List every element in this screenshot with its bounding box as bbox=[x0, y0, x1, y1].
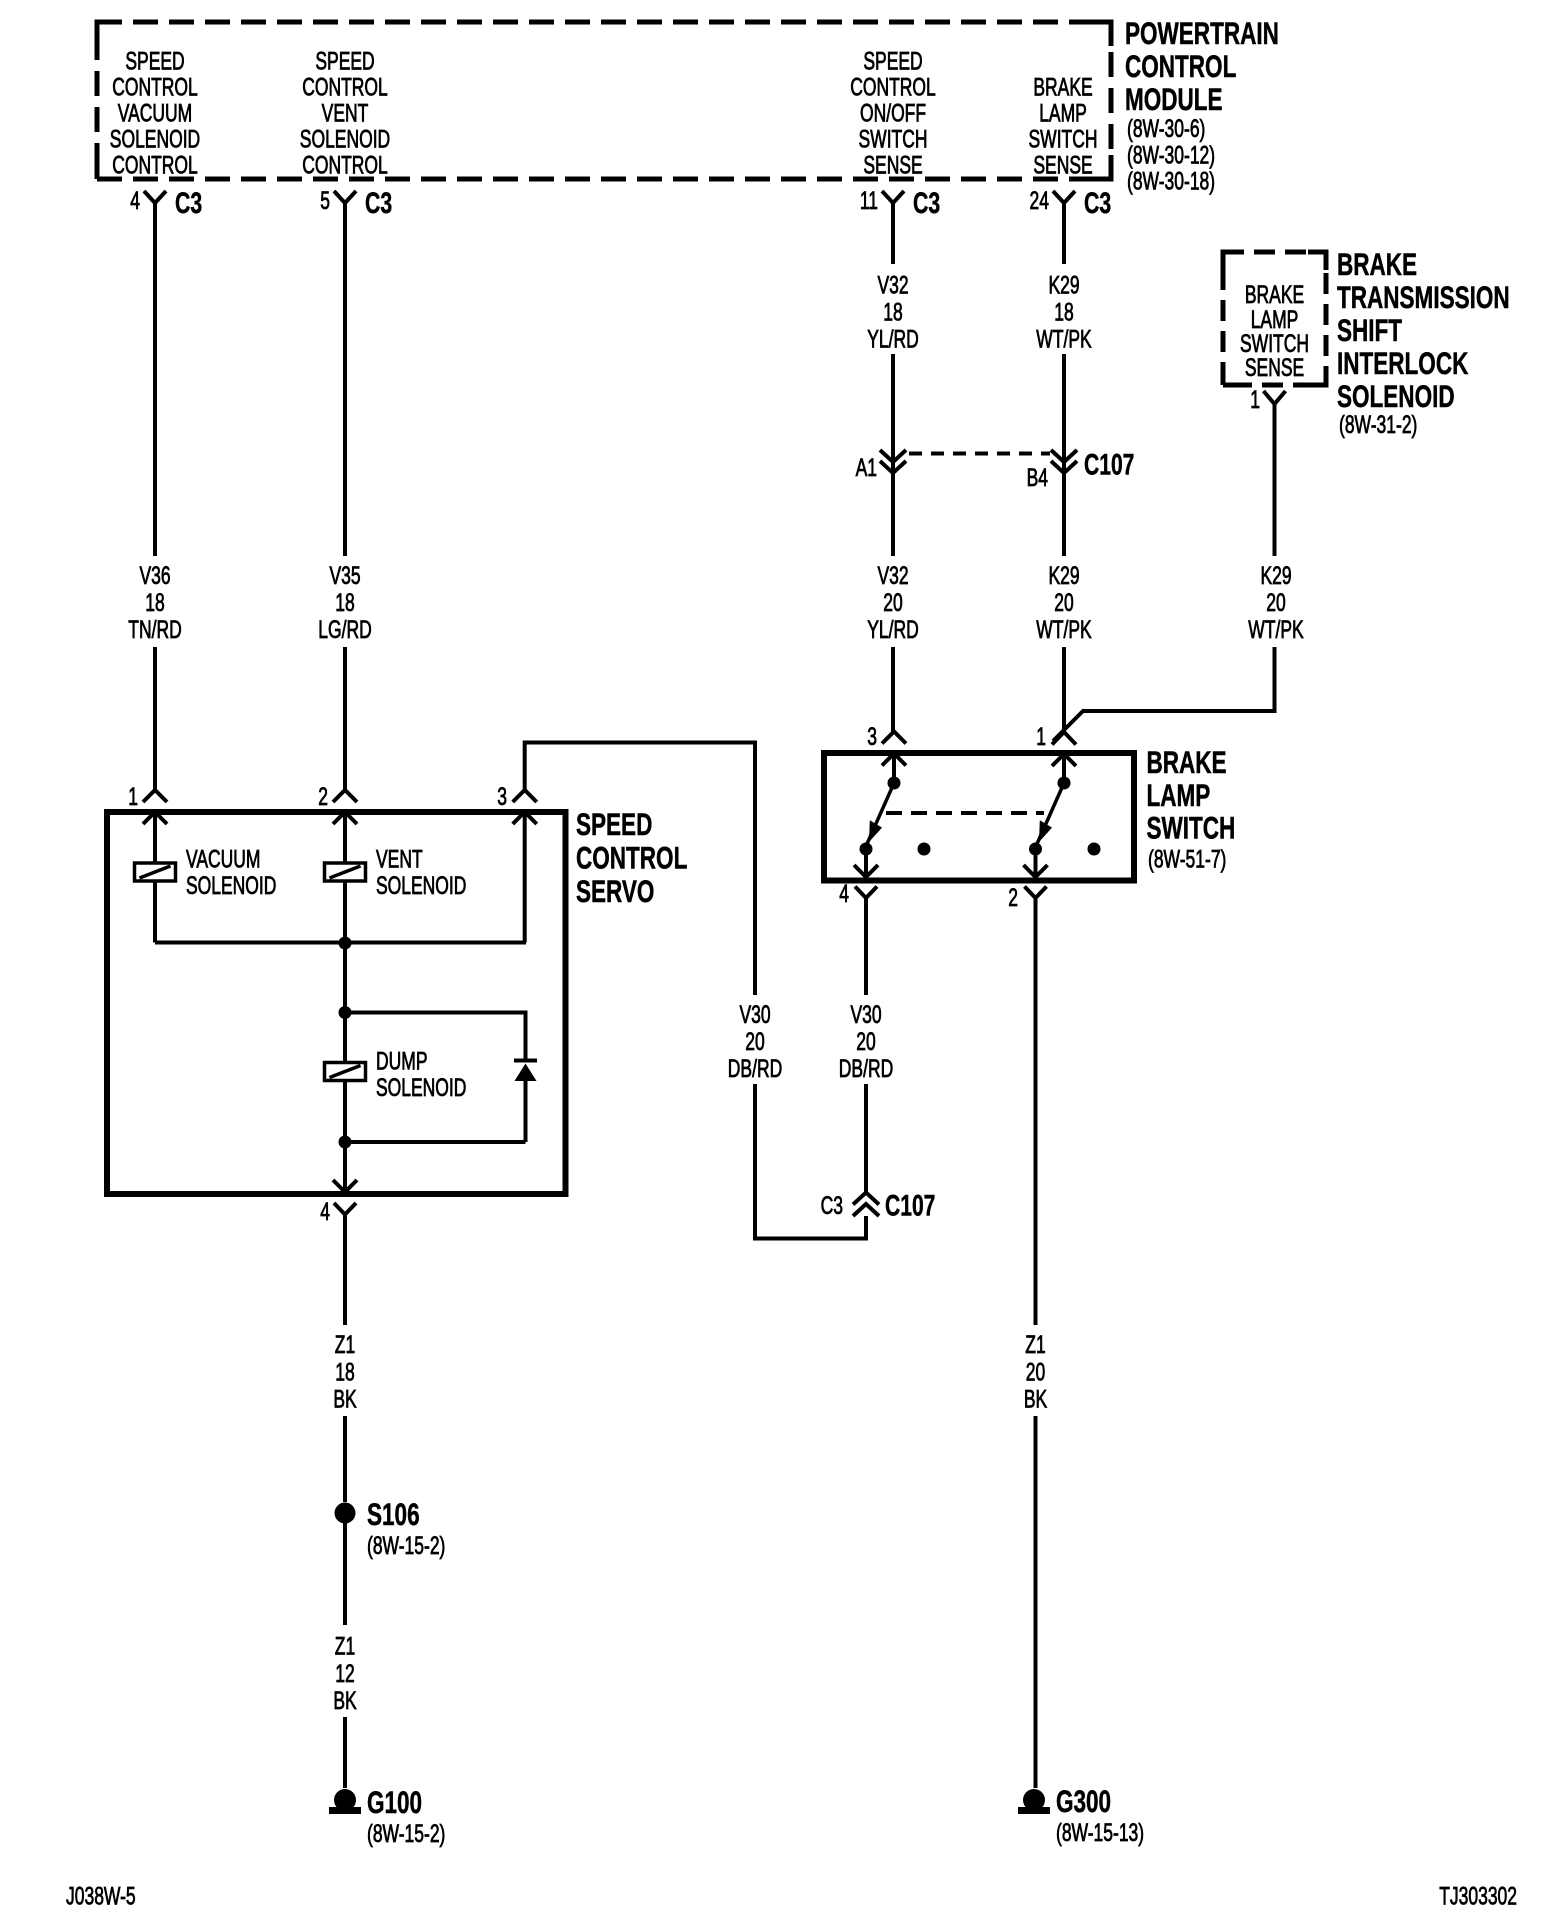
svg-text:SWITCH: SWITCH bbox=[1029, 124, 1098, 153]
svg-text:VENT: VENT bbox=[322, 98, 369, 127]
svg-text:SWITCH: SWITCH bbox=[1147, 810, 1236, 846]
svg-text:18: 18 bbox=[335, 588, 354, 617]
svg-text:(8W-30-18): (8W-30-18) bbox=[1127, 166, 1215, 195]
svg-text:4: 4 bbox=[320, 1197, 330, 1226]
dump solenoid bbox=[325, 1046, 467, 1101]
vent solenoid branch bbox=[325, 812, 467, 943]
svg-text:A1: A1 bbox=[856, 453, 877, 482]
svg-text:SOLENOID: SOLENOID bbox=[376, 1073, 466, 1102]
node: SPEED CONTROL ON/OFF SWITCH SENSE (PCM pin 11 label) bbox=[850, 46, 936, 179]
svg-text:V32: V32 bbox=[877, 561, 908, 590]
svg-text:YL/RD: YL/RD bbox=[867, 324, 919, 353]
svg-text:SENSE: SENSE bbox=[1245, 353, 1304, 382]
wire K29 18 WT/PK (PCM pin 24 to C107 B4) bbox=[1062, 203, 1066, 474]
BTSI box (Brake Transmission Shift Interlock Solenoid) bbox=[1223, 252, 1326, 385]
svg-text:C3: C3 bbox=[1084, 188, 1111, 220]
svg-text:LAMP: LAMP bbox=[1147, 777, 1211, 813]
svg-text:(8W-15-13): (8W-15-13) bbox=[1056, 1818, 1144, 1847]
svg-text:11: 11 bbox=[860, 186, 878, 215]
switch contact 1-2 inside brake lamp switch bbox=[1024, 754, 1077, 877]
svg-text:BK: BK bbox=[333, 1686, 357, 1715]
node: SPEED CONTROL VACUUM SOLENOID CONTROL (PCM pin 4 label) bbox=[110, 46, 200, 179]
svg-text:3: 3 bbox=[497, 782, 507, 811]
brake lamp switch box bbox=[824, 753, 1134, 881]
svg-text:SOLENOID: SOLENOID bbox=[110, 124, 200, 153]
label: V36 18 TN/RD bbox=[128, 561, 181, 644]
label: K29 18 WT/PK bbox=[1036, 270, 1092, 353]
connector C3 pin 4 bbox=[130, 186, 202, 220]
wire V32 18 YL/RD (PCM pin 11 to C107 A1) bbox=[891, 203, 895, 474]
svg-text:SPEED: SPEED bbox=[315, 46, 374, 75]
label: K29 20 WT/PK (middle) bbox=[1036, 561, 1092, 644]
svg-text:Z1: Z1 bbox=[1025, 1330, 1045, 1359]
svg-text:18: 18 bbox=[335, 1357, 354, 1386]
wire: C107 C3 down, left, and up to servo pin 3 bbox=[525, 743, 866, 1239]
svg-text:BRAKE: BRAKE bbox=[1337, 246, 1417, 282]
svg-text:20: 20 bbox=[1026, 1357, 1045, 1386]
label: sheet number J038W-5 bbox=[66, 1881, 136, 1910]
svg-text:WT/PK: WT/PK bbox=[1248, 615, 1304, 644]
vacuum solenoid branch bbox=[135, 812, 277, 943]
svg-text:DUMP: DUMP bbox=[376, 1046, 427, 1075]
svg-text:SOLENOID: SOLENOID bbox=[376, 871, 466, 900]
svg-text:(8W-30-6): (8W-30-6) bbox=[1127, 114, 1205, 143]
svg-text:(8W-15-2): (8W-15-2) bbox=[367, 1819, 445, 1848]
svg-text:J038W-5: J038W-5 bbox=[66, 1881, 136, 1910]
svg-text:K29: K29 bbox=[1260, 561, 1291, 590]
PCM module box (Powertrain Control Module) bbox=[97, 22, 1111, 179]
connector BTSI pin 1 bbox=[1250, 385, 1285, 414]
wire V32 20 YL/RD (C107 A1 to brake lamp switch pin 3) bbox=[891, 473, 895, 732]
svg-text:BK: BK bbox=[333, 1384, 357, 1413]
diode D1 (clamp across dump solenoid) bbox=[345, 1013, 537, 1143]
svg-text:G300: G300 bbox=[1056, 1783, 1111, 1819]
svg-text:SENSE: SENSE bbox=[863, 150, 922, 179]
svg-text:V32: V32 bbox=[877, 270, 908, 299]
node: BRAKE LAMP SWITCH SENSE (BTSI pin 1 label) bbox=[1240, 280, 1309, 382]
junction node (dump top) bbox=[339, 1006, 352, 1019]
label: V32 20 YL/RD bbox=[867, 561, 919, 644]
junction node (dump bottom) bbox=[339, 1136, 352, 1149]
wire: dashed link between C107 A1 and B4 bbox=[909, 452, 1050, 456]
connector servo pin 4 bbox=[320, 1197, 356, 1226]
svg-text:SENSE: SENSE bbox=[1033, 150, 1092, 179]
svg-text:20: 20 bbox=[883, 588, 902, 617]
svg-text:SHIFT: SHIFT bbox=[1337, 312, 1402, 348]
contact dot (right of switch 1-2) bbox=[1088, 843, 1101, 856]
svg-text:12: 12 bbox=[335, 1659, 354, 1688]
svg-text:K29: K29 bbox=[1048, 270, 1079, 299]
svg-text:V36: V36 bbox=[139, 561, 170, 590]
servo pin 3 internal wire bbox=[513, 812, 537, 943]
svg-text:CONTROL: CONTROL bbox=[576, 840, 687, 876]
svg-text:1: 1 bbox=[128, 782, 138, 811]
connector brake lamp switch pin 4 bbox=[839, 879, 877, 908]
svg-text:LG/RD: LG/RD bbox=[318, 615, 371, 644]
svg-text:Z1: Z1 bbox=[335, 1631, 355, 1660]
wire: junction bus inside servo bbox=[155, 941, 526, 945]
label: V32 18 YL/RD bbox=[867, 270, 919, 353]
servo pin 4 exit bbox=[333, 1142, 357, 1192]
svg-text:SPEED: SPEED bbox=[125, 46, 184, 75]
svg-text:3: 3 bbox=[867, 722, 877, 751]
svg-text:(8W-30-12): (8W-30-12) bbox=[1127, 140, 1215, 169]
svg-text:WT/PK: WT/PK bbox=[1036, 615, 1092, 644]
label: SPEED CONTROL SERVO title bbox=[576, 806, 687, 909]
label: BRAKE LAMP SWITCH (8W-51-7) bbox=[1147, 744, 1236, 873]
label: BRAKE TRANSMISSION SHIFT INTERLOCK SOLENOID title bbox=[1337, 246, 1510, 439]
dashed line inside brake lamp switch bbox=[886, 811, 1044, 815]
svg-text:CONTROL: CONTROL bbox=[112, 72, 198, 101]
svg-text:CONTROL: CONTROL bbox=[850, 72, 936, 101]
svg-text:C107: C107 bbox=[1084, 449, 1134, 481]
svg-text:INTERLOCK: INTERLOCK bbox=[1337, 345, 1469, 381]
connector C107 pin C3 bbox=[821, 1190, 936, 1222]
svg-text:SPEED: SPEED bbox=[863, 46, 922, 75]
svg-text:G100: G100 bbox=[367, 1784, 422, 1820]
svg-text:18: 18 bbox=[883, 297, 902, 326]
label: drawing number TJ303302 bbox=[1439, 1881, 1517, 1910]
connector C107 pin B4 bbox=[1027, 449, 1135, 492]
label: V30 20 DB/RD (right) bbox=[839, 1000, 893, 1083]
svg-text:ON/OFF: ON/OFF bbox=[860, 98, 926, 127]
wire: bus down to dump solenoid bbox=[343, 943, 347, 1142]
wire V30 20 DB/RD (brake lamp switch pin 4 down to C107 C3) bbox=[864, 898, 868, 1192]
svg-text:5: 5 bbox=[320, 186, 330, 215]
svg-text:Z1: Z1 bbox=[335, 1330, 355, 1359]
svg-text:YL/RD: YL/RD bbox=[867, 615, 919, 644]
svg-text:POWERTRAIN: POWERTRAIN bbox=[1125, 15, 1279, 51]
svg-text:VENT: VENT bbox=[376, 844, 423, 873]
svg-text:V35: V35 bbox=[329, 561, 360, 590]
wire K29 20 WT/PK (C107 B4 to brake lamp switch pin 1) bbox=[1062, 473, 1066, 732]
svg-text:VACUUM: VACUUM bbox=[118, 98, 192, 127]
svg-text:1: 1 bbox=[1036, 722, 1046, 751]
wire V35 18 LG/RD (PCM pin 5 to servo pin 2) bbox=[343, 203, 347, 790]
node: BRAKE LAMP SWITCH SENSE (PCM pin 24 label) bbox=[1029, 72, 1098, 179]
svg-text:SOLENOID: SOLENOID bbox=[1337, 378, 1455, 414]
svg-text:K29: K29 bbox=[1048, 561, 1079, 590]
svg-text:BK: BK bbox=[1024, 1384, 1048, 1413]
svg-text:VACUUM: VACUUM bbox=[186, 844, 260, 873]
wire V36 18 TN/RD (PCM pin 4 to servo pin 1) bbox=[153, 203, 157, 790]
label: V30 20 DB/RD (left) bbox=[728, 1000, 782, 1083]
ground G100 bbox=[329, 1784, 445, 1848]
svg-text:1: 1 bbox=[1250, 385, 1260, 414]
svg-text:24: 24 bbox=[1030, 186, 1049, 215]
connector C3 pin 24 bbox=[1030, 186, 1112, 220]
svg-text:SOLENOID: SOLENOID bbox=[186, 871, 276, 900]
connector brake lamp switch pin 2 bbox=[1008, 883, 1046, 912]
svg-text:LAMP: LAMP bbox=[1039, 98, 1087, 127]
svg-text:WT/PK: WT/PK bbox=[1036, 324, 1092, 353]
label: Z1 20 BK bbox=[1024, 1330, 1048, 1413]
svg-text:C3: C3 bbox=[365, 188, 392, 220]
junction node (pin 2 bus) bbox=[339, 937, 352, 950]
svg-text:2: 2 bbox=[318, 782, 328, 811]
svg-text:V30: V30 bbox=[850, 1000, 881, 1029]
svg-text:C3: C3 bbox=[821, 1191, 843, 1220]
svg-text:B4: B4 bbox=[1027, 463, 1048, 492]
connector C3 pin 5 bbox=[320, 186, 392, 220]
svg-text:20: 20 bbox=[1266, 588, 1285, 617]
svg-text:18: 18 bbox=[1054, 297, 1073, 326]
svg-text:BRAKE: BRAKE bbox=[1147, 744, 1227, 780]
svg-text:CONTROL: CONTROL bbox=[1125, 48, 1236, 84]
svg-text:V30: V30 bbox=[739, 1000, 770, 1029]
svg-text:MODULE: MODULE bbox=[1125, 81, 1223, 117]
svg-text:CONTROL: CONTROL bbox=[302, 72, 388, 101]
wire Z1 18 BK (servo pin 4 to splice S106) bbox=[343, 1215, 347, 1503]
svg-text:(8W-31-2): (8W-31-2) bbox=[1339, 410, 1417, 439]
connector servo pin 2 bbox=[318, 782, 357, 811]
svg-text:SERVO: SERVO bbox=[576, 873, 654, 909]
wire Z1 12 BK (S106 to ground G100) bbox=[343, 1523, 347, 1788]
svg-text:C3: C3 bbox=[913, 188, 940, 220]
splice S106 bbox=[335, 1496, 446, 1560]
label: Z1 12 BK bbox=[333, 1631, 357, 1714]
svg-text:(8W-15-2): (8W-15-2) bbox=[367, 1531, 445, 1560]
svg-text:DB/RD: DB/RD bbox=[728, 1054, 782, 1083]
svg-text:(8W-51-7): (8W-51-7) bbox=[1148, 844, 1226, 873]
svg-text:CONTROL: CONTROL bbox=[302, 150, 388, 179]
svg-text:TJ303302: TJ303302 bbox=[1439, 1881, 1517, 1910]
connector C107 pin A1 bbox=[856, 450, 906, 482]
svg-text:SPEED: SPEED bbox=[576, 806, 652, 842]
wire K29 20 WT/PK (BTSI pin 1 to brake lamp switch pin 1) bbox=[1053, 404, 1277, 741]
ground G300 bbox=[1018, 1783, 1144, 1847]
svg-text:SOLENOID: SOLENOID bbox=[300, 124, 390, 153]
speed control servo box bbox=[107, 812, 566, 1194]
label: V35 18 LG/RD bbox=[318, 561, 371, 644]
wire Z1 20 BK (brake lamp switch pin 2 to ground G300) bbox=[1034, 898, 1038, 1788]
node: SPEED CONTROL VENT SOLENOID CONTROL (PCM pin 5 label) bbox=[300, 46, 390, 179]
svg-text:SWITCH: SWITCH bbox=[859, 124, 928, 153]
svg-text:2: 2 bbox=[1008, 883, 1018, 912]
svg-text:20: 20 bbox=[1054, 588, 1073, 617]
svg-text:4: 4 bbox=[130, 186, 140, 215]
contact dot (right of switch 3-4) bbox=[918, 843, 931, 856]
svg-text:DB/RD: DB/RD bbox=[839, 1054, 893, 1083]
connector C3 pin 11 bbox=[860, 186, 940, 220]
connector brake lamp switch pin 3 bbox=[867, 722, 906, 751]
svg-text:S106: S106 bbox=[367, 1496, 420, 1532]
svg-text:C3: C3 bbox=[175, 188, 202, 220]
connector brake lamp switch pin 1 bbox=[1036, 722, 1076, 751]
connector servo pin 1 bbox=[128, 782, 167, 811]
svg-text:TN/RD: TN/RD bbox=[128, 615, 181, 644]
svg-text:20: 20 bbox=[856, 1027, 875, 1056]
svg-text:18: 18 bbox=[145, 588, 164, 617]
svg-text:CONTROL: CONTROL bbox=[112, 150, 198, 179]
svg-text:BRAKE: BRAKE bbox=[1033, 72, 1092, 101]
label: K29 20 WT/PK (right) bbox=[1248, 561, 1304, 644]
switch contact 3-4 inside brake lamp switch bbox=[854, 754, 906, 878]
svg-text:C107: C107 bbox=[885, 1190, 935, 1222]
connector servo pin 3 bbox=[497, 782, 536, 811]
label: POWERTRAIN CONTROL MODULE title bbox=[1125, 15, 1279, 195]
svg-text:TRANSMISSION: TRANSMISSION bbox=[1337, 279, 1510, 315]
svg-text:4: 4 bbox=[839, 879, 849, 908]
svg-text:20: 20 bbox=[745, 1027, 764, 1056]
label: Z1 18 BK bbox=[333, 1330, 357, 1413]
